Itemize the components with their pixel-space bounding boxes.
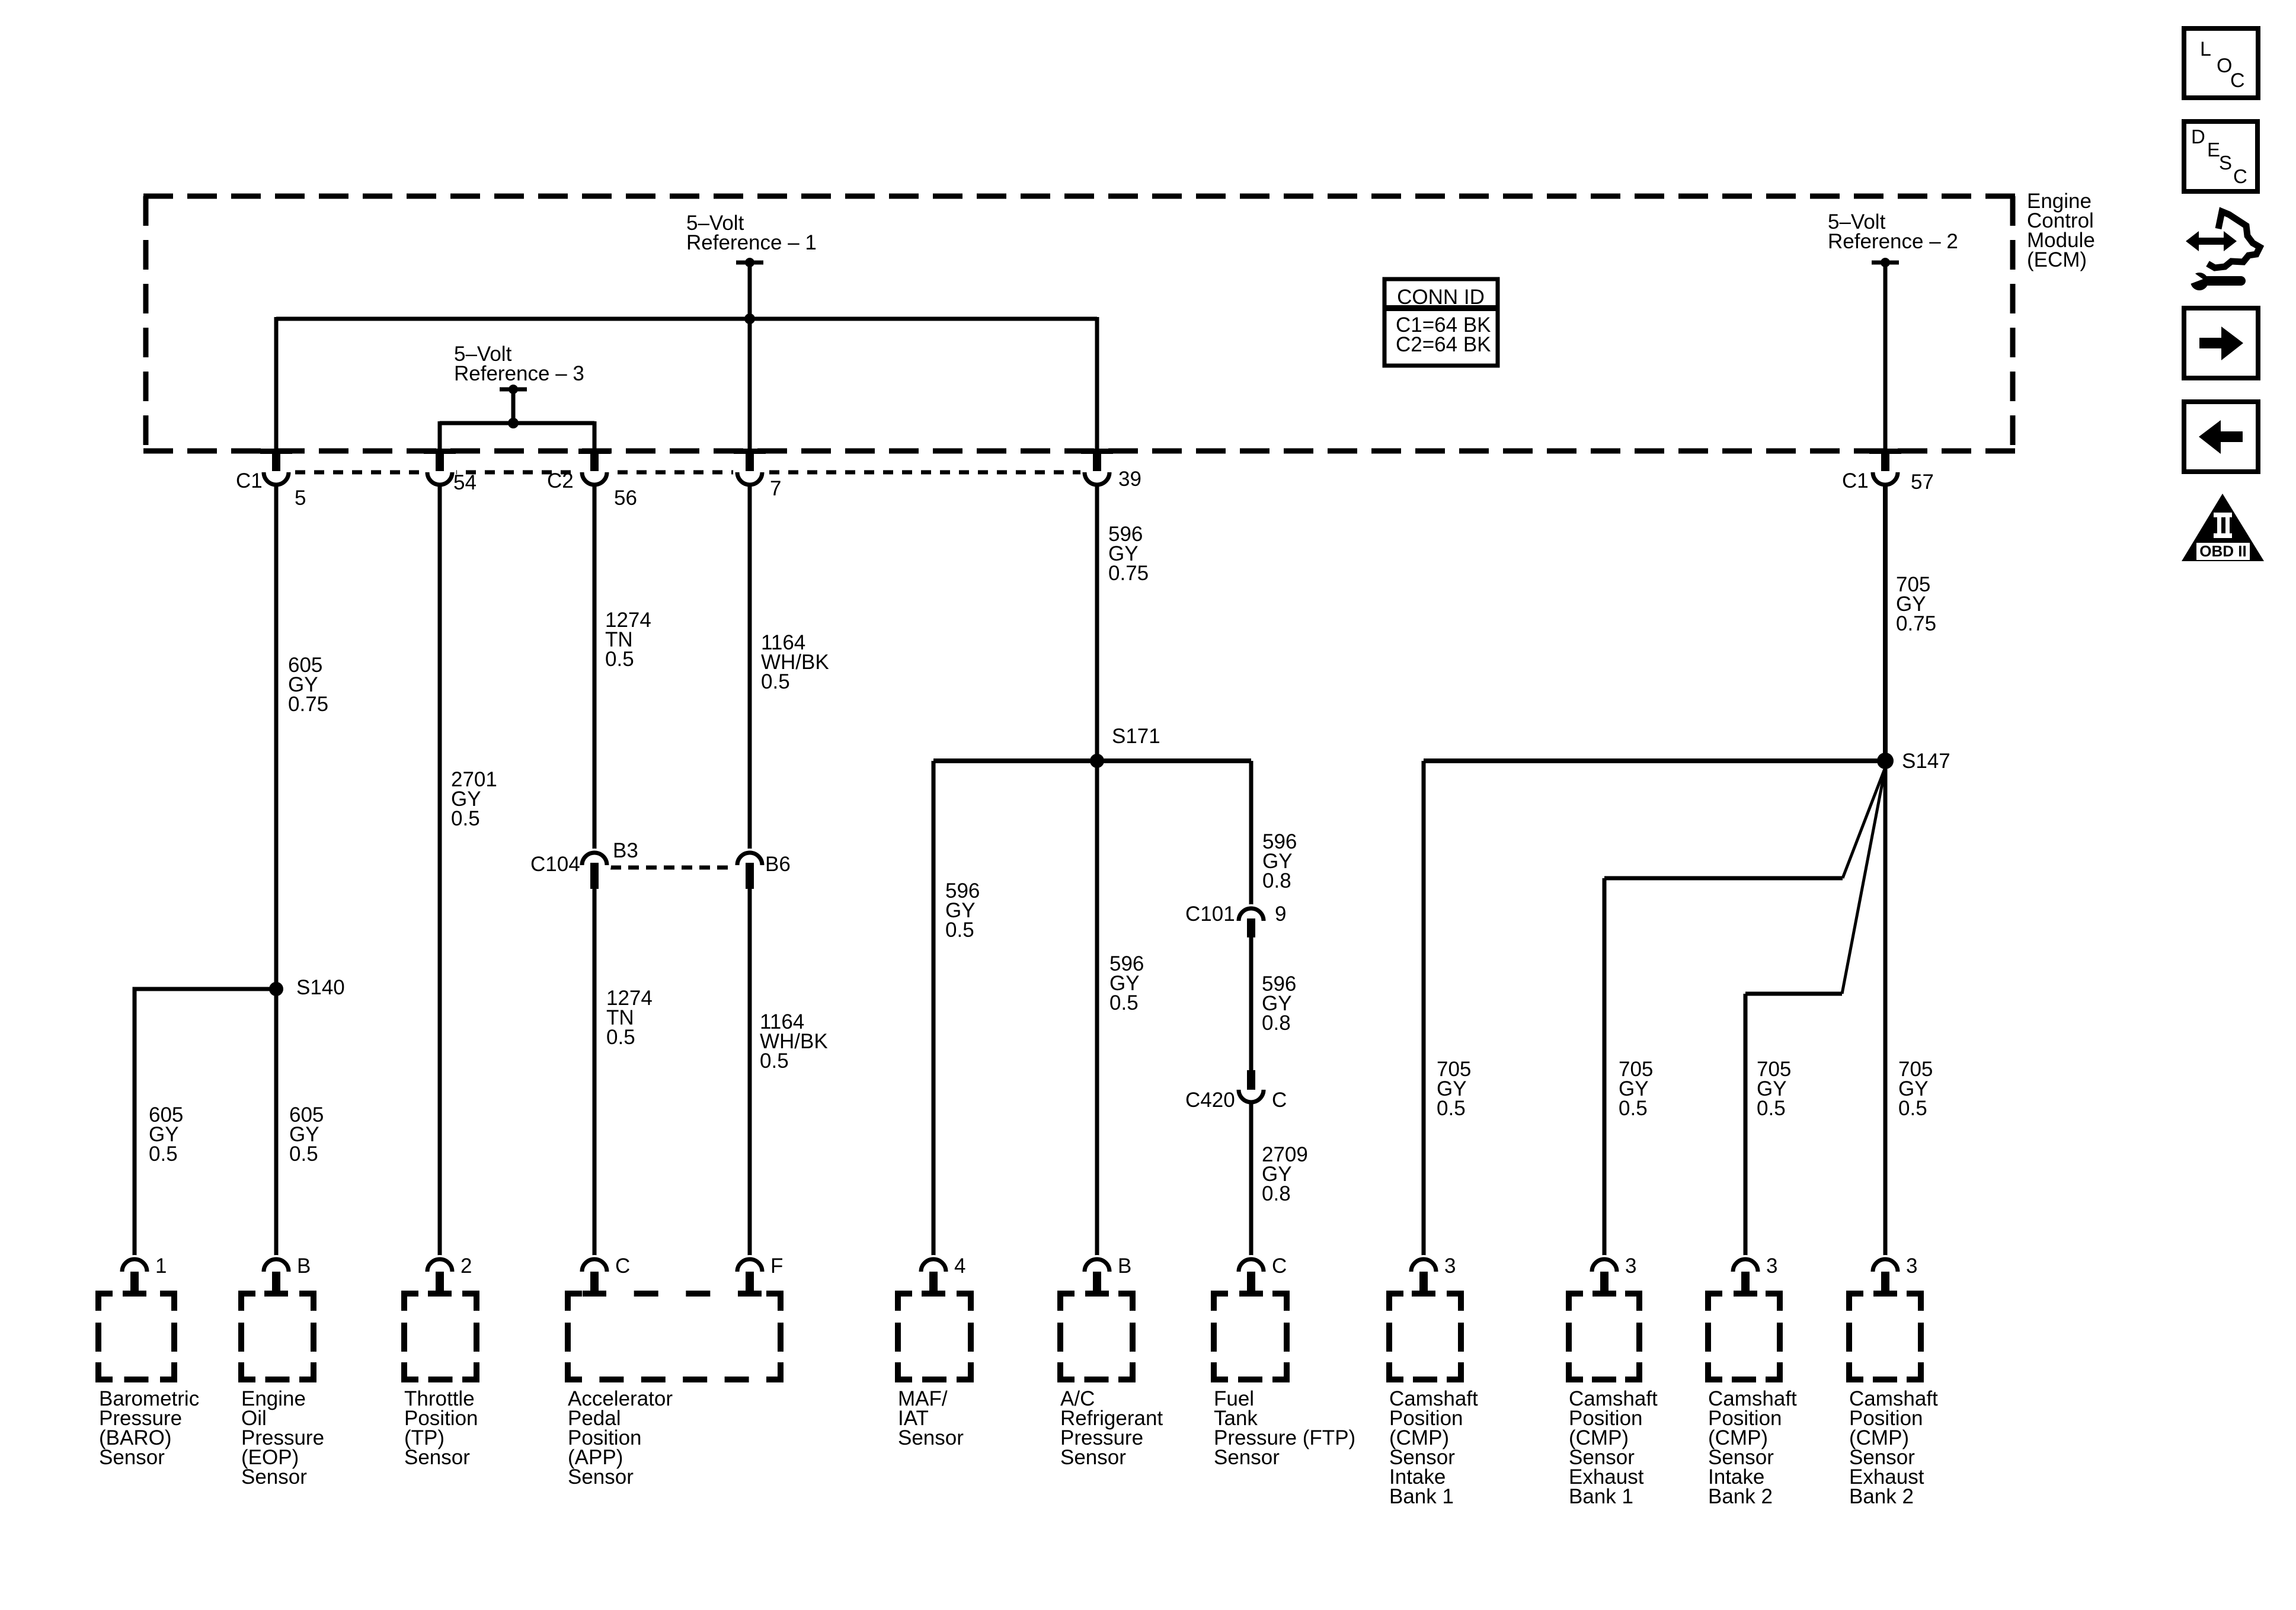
wire ref3 drop to pin 56 bbox=[593, 421, 597, 450]
svg-text:C420: C420 bbox=[1185, 1089, 1235, 1112]
svg-text:S171: S171 bbox=[1112, 725, 1160, 748]
svg-text:0.5: 0.5 bbox=[451, 807, 480, 830]
wire S171 to MAF bbox=[932, 761, 936, 1259]
APP sensor box bbox=[565, 1291, 582, 1297]
svg-text:0.5: 0.5 bbox=[1109, 991, 1139, 1014]
ECM module dashed box left border bbox=[143, 196, 149, 451]
ECM pin 56 (connector C2) bbox=[578, 449, 610, 454]
wire ref1 vertical bbox=[748, 263, 752, 319]
svg-text:3: 3 bbox=[1625, 1254, 1636, 1278]
wire S140 down to EOP bbox=[274, 989, 279, 1259]
power symbol 5-Volt Reference - 3 bbox=[500, 388, 527, 392]
svg-text:3: 3 bbox=[1444, 1254, 1456, 1278]
BARO sensor box bbox=[95, 1291, 113, 1297]
wire 1274 TN 0.5 pin 56 to C104 B3 bbox=[593, 484, 597, 853]
CMP sensor exhaust bank2 box bbox=[1846, 1291, 1863, 1297]
EOP sensor box bbox=[238, 1291, 255, 1297]
MAF/IAT sensor box bbox=[895, 1291, 912, 1297]
power symbol 5-Volt Reference - 1 bbox=[736, 261, 763, 265]
wire S171 to C101 bbox=[1249, 761, 1253, 910]
svg-text:B6: B6 bbox=[765, 853, 791, 876]
inline connector C420 pin C bbox=[1247, 1070, 1255, 1090]
svg-text:C1: C1 bbox=[236, 469, 263, 492]
svg-text:C: C bbox=[615, 1254, 630, 1278]
sensor connector pin F APP bbox=[733, 1255, 766, 1288]
icon forward arrow box bbox=[2184, 308, 2258, 378]
sensor connector pin 1 BARO bbox=[118, 1255, 151, 1288]
svg-text:0.5: 0.5 bbox=[606, 1026, 635, 1049]
svg-text:1: 1 bbox=[155, 1254, 167, 1278]
svg-text:57: 57 bbox=[1911, 470, 1934, 494]
svg-text:0.8: 0.8 bbox=[1262, 1182, 1291, 1205]
svg-text:OBD II: OBD II bbox=[2199, 542, 2246, 560]
svg-text:0.5: 0.5 bbox=[605, 648, 634, 671]
svg-text:Bank 1: Bank 1 bbox=[1569, 1485, 1633, 1508]
wire CMP exhaust bank1 drop bbox=[1603, 878, 1607, 1259]
svg-text:0.5: 0.5 bbox=[1757, 1097, 1786, 1120]
wire 2701 GY 0.5 pin 54 to TP bbox=[438, 484, 442, 1259]
sensor connector pin 4 MAF bbox=[917, 1255, 950, 1288]
svg-text:56: 56 bbox=[614, 486, 637, 510]
svg-text:0.5: 0.5 bbox=[760, 1049, 789, 1073]
svg-text:Reference – 1: Reference – 1 bbox=[686, 231, 817, 254]
splice S147 bbox=[1877, 753, 1894, 769]
sensor connector pin 3 CMP4 bbox=[1869, 1255, 1902, 1288]
svg-text:(ECM): (ECM) bbox=[2027, 248, 2087, 271]
svg-text:B3: B3 bbox=[613, 839, 638, 862]
connector C1/C2 dotted line bbox=[276, 470, 1097, 475]
svg-text:5: 5 bbox=[295, 486, 306, 510]
wire S147 down to CMP exhaust bank 2 bbox=[1884, 761, 1888, 1259]
wire bus left drop to pin 5 bbox=[274, 317, 279, 450]
svg-text:Bank 1: Bank 1 bbox=[1389, 1485, 1454, 1508]
svg-text:0.8: 0.8 bbox=[1262, 869, 1291, 892]
sensor connector pin 3 CMP2 bbox=[1588, 1255, 1621, 1288]
sensor connector pin 3 CMP1 bbox=[1407, 1255, 1440, 1288]
svg-text:3: 3 bbox=[1766, 1254, 1777, 1278]
svg-text:0.75: 0.75 bbox=[1108, 562, 1149, 585]
svg-text:CONN ID: CONN ID bbox=[1397, 286, 1485, 309]
ECM pin 7 bbox=[734, 449, 766, 454]
svg-text:0.8: 0.8 bbox=[1262, 1012, 1291, 1035]
wire CMP exhaust bank1 horizontal bbox=[1604, 876, 1843, 881]
ECM pin 5 (connector C1) bbox=[260, 449, 292, 454]
svg-text:4: 4 bbox=[954, 1254, 965, 1278]
svg-text:0.5: 0.5 bbox=[1619, 1097, 1648, 1120]
sensor connector pin C FTP bbox=[1235, 1255, 1268, 1288]
sensor connector pin 2 TP bbox=[423, 1255, 456, 1288]
svg-text:Sensor: Sensor bbox=[404, 1446, 470, 1469]
connector C104 pin B6 bbox=[733, 849, 766, 882]
svg-text:0.5: 0.5 bbox=[945, 918, 974, 942]
wire S171 to AC sensor bbox=[1095, 761, 1099, 1259]
svg-text:Bank 2: Bank 2 bbox=[1849, 1485, 1914, 1508]
svg-text:L: L bbox=[2200, 38, 2211, 60]
TP sensor box bbox=[401, 1291, 418, 1297]
svg-text:Sensor: Sensor bbox=[568, 1465, 634, 1489]
sensor connector pin C APP bbox=[578, 1255, 611, 1288]
svg-text:D: D bbox=[2191, 126, 2205, 148]
svg-text:C1: C1 bbox=[1842, 469, 1869, 492]
svg-text:C2=64 BK: C2=64 BK bbox=[1396, 333, 1491, 356]
svg-text:0.5: 0.5 bbox=[1898, 1097, 1927, 1120]
ECM pin 54 bbox=[424, 449, 456, 454]
svg-text:0.5: 0.5 bbox=[289, 1142, 318, 1166]
svg-text:Sensor: Sensor bbox=[99, 1446, 165, 1469]
wire 1164 WH/BK 0.5 pin 7 to C104 B6 bbox=[748, 484, 752, 853]
svg-text:S: S bbox=[2219, 152, 2232, 174]
svg-text:Bank 2: Bank 2 bbox=[1708, 1485, 1773, 1508]
svg-text:2: 2 bbox=[461, 1254, 472, 1278]
wire ref3 drop to pin 54 bbox=[438, 421, 442, 450]
svg-text:C: C bbox=[1272, 1089, 1287, 1112]
svg-text:Sensor: Sensor bbox=[241, 1465, 307, 1489]
power symbol 5-Volt Reference - 2 bbox=[1872, 261, 1899, 265]
sensor connector pin 3 CMP3 bbox=[1729, 1255, 1762, 1288]
ECM module dashed box bottom border bbox=[143, 449, 2015, 454]
wire S147 diagonal to CMP intake bank 2 bbox=[1842, 767, 1885, 994]
wire internal bus ref1 bbox=[276, 317, 1097, 321]
icon back arrow box bbox=[2184, 402, 2258, 472]
svg-text:Reference – 3: Reference – 3 bbox=[454, 362, 584, 385]
svg-text:Reference – 2: Reference – 2 bbox=[1828, 230, 1958, 253]
svg-text:Sensor: Sensor bbox=[1214, 1446, 1280, 1469]
wire S147 horizontal branch to CMP intake bank 1 bbox=[1424, 758, 1885, 763]
wire S147 diagonal to CMP exhaust bank 1 bbox=[1843, 767, 1885, 878]
wire bus right drop to pin 39 bbox=[1095, 317, 1099, 450]
junction dot ref1 bus bbox=[744, 313, 755, 324]
svg-text:B: B bbox=[297, 1254, 311, 1278]
svg-text:7: 7 bbox=[770, 477, 781, 500]
ECM module dashed box top border bbox=[143, 194, 2015, 199]
CMP sensor intake bank2 box bbox=[1705, 1291, 1722, 1297]
AC refrigerant pressure sensor box bbox=[1057, 1291, 1075, 1297]
svg-text:Sensor: Sensor bbox=[1060, 1446, 1126, 1469]
ECM pin 57 (connector C1) bbox=[1869, 449, 1901, 454]
inline connector C104 dashed link B3-B6 bbox=[610, 866, 734, 870]
svg-text:0.5: 0.5 bbox=[149, 1142, 178, 1166]
svg-text:9: 9 bbox=[1275, 902, 1286, 926]
wire S140 branch to BARO bbox=[135, 989, 276, 1259]
svg-text:0.5: 0.5 bbox=[761, 670, 790, 693]
svg-text:F: F bbox=[770, 1254, 783, 1278]
ECM pin 39 bbox=[1081, 449, 1113, 454]
inline connector C101 pin 9 bbox=[1235, 904, 1268, 937]
junction dot ref3 bus bbox=[508, 418, 519, 428]
wire CMP intake bank2 horizontal bbox=[1745, 992, 1842, 996]
wire internal bus ref3 bbox=[440, 421, 594, 425]
svg-text:E: E bbox=[2207, 139, 2220, 161]
svg-text:C101: C101 bbox=[1185, 902, 1235, 926]
wire CMP intake bank2 drop bbox=[1744, 994, 1748, 1259]
svg-text:3: 3 bbox=[1906, 1254, 1917, 1278]
svg-text:C: C bbox=[1272, 1254, 1287, 1278]
icon DESC box bbox=[2184, 121, 2257, 191]
svg-text:C: C bbox=[2233, 165, 2247, 187]
wire 596 GY 0.75 pin 39 to S171 bbox=[1095, 484, 1099, 761]
svg-text:0.75: 0.75 bbox=[288, 693, 328, 716]
wire 1274 TN 0.5 B3 to APP pin C bbox=[593, 889, 597, 1259]
sensor connector pin B AC bbox=[1080, 1255, 1114, 1288]
wire ref2 drop to pin 57 bbox=[1884, 263, 1888, 450]
wire 596 GY 0.8 C101 to C420 bbox=[1249, 937, 1253, 1071]
svg-text:S140: S140 bbox=[296, 976, 345, 999]
wire 705 GY 0.75 pin 57 to S147 bbox=[1883, 484, 1888, 761]
svg-text:39: 39 bbox=[1118, 468, 1141, 491]
wire ref1 drop to pin 7 bbox=[748, 319, 752, 450]
CONN ID table box bbox=[1384, 279, 1498, 366]
svg-text:S147: S147 bbox=[1902, 750, 1950, 773]
sensor connector pin B EOP bbox=[260, 1255, 293, 1288]
svg-text:C104: C104 bbox=[530, 853, 580, 876]
svg-text:0.75: 0.75 bbox=[1896, 612, 1936, 635]
CMP sensor intake bank1 box bbox=[1386, 1291, 1403, 1297]
wire ref3 vertical bbox=[511, 389, 516, 423]
splice S171 bbox=[1090, 754, 1104, 768]
wire 605 GY 0.75 from pin 5 to S140 bbox=[274, 484, 279, 989]
svg-text:0.5: 0.5 bbox=[1437, 1097, 1466, 1120]
wire S171 horizontal branch bbox=[933, 758, 1251, 763]
svg-text:Sensor: Sensor bbox=[898, 1426, 964, 1449]
icon remove-install wrench symbol bbox=[2186, 212, 2260, 290]
svg-text:C: C bbox=[2230, 69, 2245, 92]
icon LOC box bbox=[2184, 28, 2258, 98]
FTP sensor box bbox=[1211, 1291, 1228, 1297]
svg-text:B: B bbox=[1118, 1254, 1131, 1278]
splice S140 bbox=[269, 982, 283, 996]
connector C104 pin B3 bbox=[578, 849, 611, 882]
wire CMP intake bank1 drop bbox=[1422, 761, 1426, 1259]
wire 1164 WH/BK 0.5 B6 to APP pin F bbox=[748, 889, 752, 1259]
wire 2709 GY 0.8 C420 to FTP bbox=[1249, 1102, 1253, 1259]
icon OBD II triangle bbox=[2182, 494, 2264, 561]
ECM module dashed box right border bbox=[2010, 196, 2016, 451]
CMP sensor exhaust bank1 box bbox=[1566, 1291, 1583, 1297]
svg-text:C2: C2 bbox=[547, 469, 574, 492]
svg-text:54: 54 bbox=[453, 471, 477, 494]
